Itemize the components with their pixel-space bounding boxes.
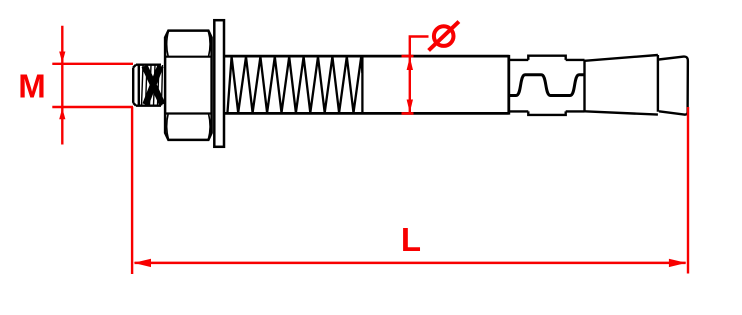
bolt body (threaded rod + plain shank) bbox=[224, 55, 509, 115]
expansion cone bbox=[585, 55, 658, 115]
stub thread dark shading bbox=[145, 66, 163, 105]
diameter symbol bbox=[429, 22, 459, 51]
svg-text:M: M bbox=[18, 67, 46, 104]
hex nut bbox=[165, 31, 212, 140]
dimension M: arrowheads bbox=[59, 52, 65, 120]
rod thread zigzag bbox=[227, 56, 362, 113]
threaded stub (left exposed thread end) bbox=[133, 65, 161, 106]
clip band with steps bbox=[528, 56, 565, 115]
expansion sleeve neck (right) bbox=[566, 60, 585, 112]
dimension L: extension lines bbox=[132, 107, 688, 274]
nut facet lines bbox=[165, 31, 212, 140]
washer bbox=[214, 20, 224, 147]
expansion sleeve neck (left) bbox=[509, 60, 529, 112]
dimension L: dimension line bbox=[135, 262, 686, 265]
dimension diameter: vertical arrow bbox=[409, 57, 411, 113]
expansion clip wave bbox=[509, 75, 583, 96]
dimension diameter: ticks on rod lines bbox=[402, 56, 414, 113]
dimension M: extension lines bbox=[52, 64, 133, 107]
stub thread hatching bbox=[142, 65, 163, 106]
svg-text:L: L bbox=[401, 221, 421, 258]
dimension diameter: leader bbox=[410, 37, 429, 57]
tip segment bbox=[659, 57, 688, 115]
dimension M: arrow line bbox=[61, 26, 63, 145]
dimension L: arrowheads bbox=[134, 259, 687, 267]
